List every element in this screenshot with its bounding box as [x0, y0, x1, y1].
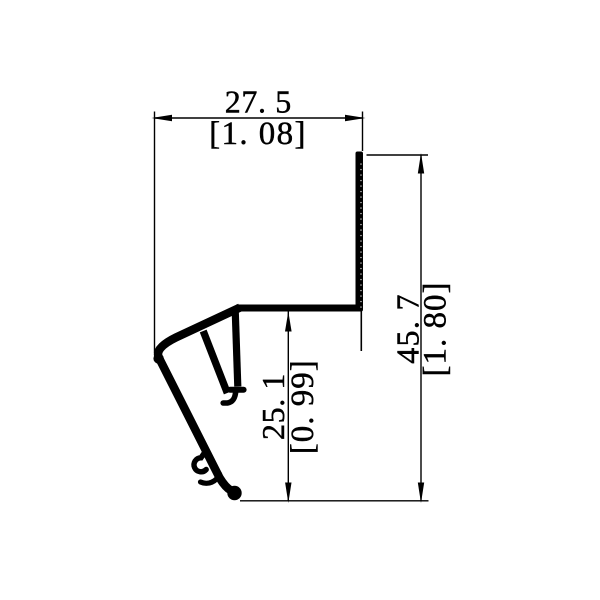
dim 45.7: top arrow	[418, 153, 424, 174]
dim 27.5: right arrow	[345, 115, 366, 121]
dim 45.7: dimension line	[420, 155, 422, 501]
dim 27.5: right extension line	[362, 112, 364, 152]
dim 25.1: dimension line	[287, 312, 289, 502]
profile: inner diagonal brace	[203, 331, 227, 393]
profile: foot stub	[230, 387, 244, 393]
profile: vertical member under bar bend	[235, 310, 238, 387]
profile: top horizontal bar	[236, 305, 362, 312]
profile: upper diagonal and lower leg	[158, 308, 240, 491]
profile: hook lower arc	[201, 474, 220, 483]
shared bottom extension line	[240, 500, 429, 502]
profile: right vertical bar	[356, 152, 364, 312]
profile: serration dots on vertical bar	[360, 164, 362, 308]
profile: hook upper arc	[194, 451, 206, 472]
dim 45.7: bottom arrow	[418, 483, 424, 504]
dim 27.5: left extension line	[154, 112, 156, 354]
profile: elbow reinforcement	[153, 353, 163, 363]
dim 25.1: top arrow	[285, 312, 292, 332]
dim 27.5: dimension line	[155, 117, 363, 119]
profile: toe curve	[223, 391, 236, 404]
dim 27.5: left arrow	[152, 115, 173, 121]
svg-text:[0. 99]: [0. 99]	[285, 359, 321, 454]
svg-text:[1. 80]: [1. 80]	[417, 282, 453, 377]
profile: ball end of lower leg	[227, 486, 241, 500]
dim 45.7: top extension line	[367, 154, 429, 156]
profile: thin line below vertical bar	[360, 311, 362, 351]
svg-text:27. 5: 27. 5	[225, 84, 292, 120]
dim 25.1: bottom arrow	[285, 483, 291, 504]
svg-text:[1. 08]: [1. 08]	[209, 116, 307, 152]
